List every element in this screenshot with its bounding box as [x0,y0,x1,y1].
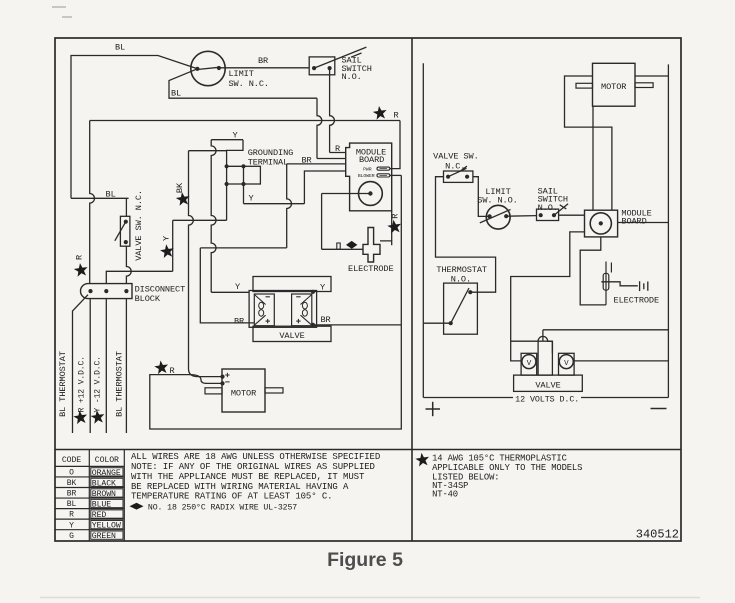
label LIMIT SW. N.O. [477,187,517,205]
svg-text:BL THERMOSTAT: BL THERMOSTAT [58,351,68,417]
label R module wire [335,144,340,154]
code row YELLOW [69,520,123,530]
label CODE header [62,456,81,465]
disconnect terminal 2 [104,289,108,293]
svg-text:ELECTRODE: ELECTRODE [614,295,660,305]
sail switch S2 blade [554,204,568,215]
label SAIL SWITCH N.O. right [538,186,568,212]
wire BR valve to right bus [313,324,401,326]
svg-text:Y: Y [69,521,74,530]
motor M2 tab right [635,83,653,88]
svg-text:R: R [394,111,399,121]
valve switch SW3 box [444,171,473,182]
electrode E2 gap bar [610,263,612,273]
wire electrode right stub [380,211,392,246]
valve switch SW2 box [120,216,129,246]
label R bus [394,111,399,121]
sail switch S1 box [309,57,335,75]
label VALVE SW. N.C. [134,190,144,261]
star BK [176,192,190,206]
wire valve sw to thermostat [436,177,496,293]
svg-text:NT-40: NT-40 [432,490,458,500]
svg-text:TEMPERATURE RATING OF AT LEAST: TEMPERATURE RATING OF AT LEAST 105° C. [131,492,332,502]
notes divider [55,449,681,451]
valve center block [538,341,552,375]
svg-text:BLOWER: BLOWER [358,173,375,179]
motor tab left [205,388,222,394]
label COLOR header [95,456,119,465]
blower motor symbol circle [359,182,383,206]
electrode E2 rod [605,262,607,305]
wire valve jumper with hop [511,336,553,353]
svg-text:R +12 V.D.C.: R +12 V.D.C. [77,356,86,412]
svg-text:CODE: CODE [62,456,81,465]
svg-text:MOTOR: MOTOR [231,389,256,399]
valve switch SW3 blade [448,166,467,177]
svg-text:BL: BL [106,190,116,200]
svg-text:R: R [69,511,74,520]
sail switch contact right [328,66,332,70]
svg-text:Y: Y [232,130,237,140]
svg-text:N.O.: N.O. [451,275,471,285]
valve coil frame [249,291,317,328]
valve Y bus bar [253,277,331,292]
wire valve top feed [543,330,669,341]
wire R sail to module [330,68,346,152]
svg-text:R: R [335,144,340,154]
module board U2 center [599,221,603,225]
label MODULE BOARD left [356,147,386,165]
valve solenoid V2 V mark [564,360,569,368]
motor terminal minus [220,381,224,385]
wire module to valve A [511,232,585,361]
label BL THERMOSTAT 2 [114,351,124,417]
valve frame junction top [311,290,315,294]
electrode E2 lug [603,273,609,290]
thermostat contact bottom [449,321,453,325]
scan streak bottom [40,597,700,599]
lug box junction top [241,164,245,168]
wire R thermostat [89,299,91,433]
label BL valve wire [106,190,116,200]
svg-text:12 VOLTS D.C.: 12 VOLTS D.C. [515,394,579,404]
wire BL thermostat 1 [73,295,89,433]
label PWR [363,166,372,172]
wire BK to motor [189,151,223,377]
limit switch SW4 circle [486,205,510,229]
spark gap bars [640,281,648,291]
wire R bus line [90,120,400,122]
svg-text:N.O.: N.O. [342,72,362,82]
wire Y thermostat [105,299,107,433]
thermostat blade [451,288,469,323]
label BL THERMOSTAT 1 [58,351,68,417]
label R disconnect [75,255,85,260]
blower motor center [368,191,372,195]
label BR module [301,156,311,166]
motor M2 tab left [576,83,593,88]
svg-text:BLACK: BLACK [92,479,116,488]
motor plus mark [225,373,229,377]
grounding lug box [227,166,261,184]
code row BLACK [67,478,123,488]
valve switch blade [115,222,126,241]
svg-text:BR: BR [301,156,311,166]
svg-text:BR: BR [320,315,330,325]
svg-text:BK: BK [175,182,185,193]
label VALVE SW right [433,151,479,171]
label GROUNDING TERMINAL [248,148,294,167]
svg-text:Y: Y [235,282,240,292]
module board U1 outline [346,143,392,211]
svg-text:NOTE: IF ANY OF THE ORIGINAL W: NOTE: IF ANY OF THE ORIGINAL WIRES AS SU… [131,462,375,472]
limit switch SW4 blade [480,210,511,223]
label R electrode [391,214,401,219]
figure caption [327,549,403,571]
label Y lug wire [248,194,253,204]
label VALVE left panel [279,331,304,341]
svg-text:BL THERMOSTAT: BL THERMOSTAT [114,351,124,417]
wire BL top loop [71,56,197,199]
radix wire diamond [346,241,357,249]
svg-text:Figure 5: Figure 5 [327,549,403,571]
label MOTOR right [601,82,626,92]
wire sail to module right [559,214,585,216]
valve solenoid V2 box [559,353,575,375]
terminal lug BLOWER [377,174,390,177]
module board U2 circle [590,213,611,234]
sail switch S2 contact right [552,213,556,217]
electrode lug small [337,243,340,249]
valve coil L2 box [292,294,312,326]
sail switch blade [314,47,366,68]
valve solenoid V1 V mark [527,360,532,368]
svg-text:O: O [69,469,74,478]
motor minus mark [225,381,229,383]
svg-text:NO. 18 250°C RADIX WIRE UL-325: NO. 18 250°C RADIX WIRE UL-3257 [148,503,297,512]
wire Y lug to module [244,171,346,204]
label VALVE right [535,380,560,390]
valve coil L1 symbol [254,295,270,326]
valve solenoid V1 box [521,353,537,375]
label ELECTRODE left [348,264,394,274]
svg-text:BR: BR [67,490,77,499]
valve solenoid V1 circle [522,355,536,369]
svg-text:ALL WIRES ARE 18 AWG UNLESS OT: ALL WIRES ARE 18 AWG UNLESS OTHERWISE SP… [131,452,380,462]
svg-text:YELLOW: YELLOW [92,522,121,531]
svg-text:V: V [564,360,569,368]
valve switch SW3 contact left [446,175,450,179]
svg-text:BLOCK: BLOCK [135,294,161,304]
wire valve sw to limit [473,177,490,217]
valve coil L1 box [254,294,274,326]
svg-text:BL: BL [171,89,181,99]
svg-text:340512: 340512 [636,528,679,542]
wire BR module to valve [200,164,345,323]
disconnect terminal 3 [124,289,128,293]
motor M2 box [593,63,636,106]
wire valve switch to disconnect [126,246,131,283]
border frame [55,38,681,541]
valve body box right [514,375,583,391]
limit switch SW4 contact right [504,214,508,218]
label R +12 VDC [77,356,86,412]
svg-text:N.C.: N.C. [445,161,465,171]
wire module to negative rail [618,222,669,224]
disconnect block body [81,284,133,299]
svg-text:R: R [170,366,175,376]
svg-text:VALVE: VALVE [279,331,304,341]
motor terminal plus [220,375,224,379]
wire blower feed [322,194,371,250]
lug box junction bottom [241,182,245,186]
label BR valve left [234,316,244,326]
note radix wire [148,503,297,512]
code row BROWN [67,489,123,499]
valve frame junction bottom [311,323,315,327]
limit switch SW1 circle [191,51,225,85]
svg-text:BROWN: BROWN [92,490,116,499]
wire 12V bus [423,397,668,399]
label ELECTRODE right [614,295,660,305]
part number 340512 [636,528,679,542]
thermostat contact top [468,290,472,294]
limit switch contact right [217,66,221,70]
label Y valve left [235,282,240,292]
star Y wire [160,244,174,258]
label BL top [115,43,125,53]
svg-text:ELECTRODE: ELECTRODE [348,264,394,274]
label Y valve right [320,283,325,293]
wire valve to negative rail [574,360,668,362]
svg-text:BL: BL [67,500,77,509]
wire R left drop to disconnect [90,121,95,284]
star R bus [373,106,387,120]
note text right [432,454,582,500]
svg-text:BE REPLACED WITH WIRING MATERI: BE REPLACED WITH WIRING MATERIAL HAVING … [131,482,349,492]
label Y wire [161,236,171,241]
wire electrode to gap [601,282,638,286]
electrode E1 cross [363,228,380,263]
svg-text:R: R [75,255,85,260]
valve switch contact top [124,220,128,224]
motor tab right [265,388,283,393]
label DISCONNECT BLOCK [135,285,186,304]
svg-text:ORANGE: ORANGE [92,469,121,478]
valve switch contact bottom [124,240,128,244]
panel divider [411,38,413,541]
disconnect terminal 1 [88,289,92,293]
label LIMIT SW. N.C. [229,69,269,89]
thermostat box [444,283,478,334]
wire R bus to PWR lug [390,121,400,169]
svg-text:Y: Y [161,236,171,241]
wire thermostat to positive rail [423,322,450,324]
wire BL lower from limit [169,69,346,159]
valve switch SW3 contact right [465,175,469,179]
rail junction upper [225,164,229,168]
svg-text:BOARD: BOARD [621,217,646,227]
wire limit to sail right [506,215,536,218]
sail switch S2 box [537,209,559,220]
svg-text:LIMIT: LIMIT [229,69,254,79]
wire Y disconnect to ground rail [106,220,226,283]
label 12 VOLTS D.C. [515,394,579,404]
wire motor left loop [565,76,612,210]
star R thermostat [73,410,87,424]
svg-text:PWR: PWR [363,166,372,172]
terminal lug PWR [377,167,390,170]
star Y thermostat [91,410,105,424]
label Y rail top [232,130,237,140]
wire BL to valve switch [71,198,129,216]
module board U2 box [585,210,618,237]
wire negative rail [667,64,669,397]
wire motor bottom feed [592,106,594,210]
limit switch contact left [195,67,199,71]
svg-text:VALVE SW. N.C.: VALVE SW. N.C. [134,190,144,261]
label Y -12 VDC [93,356,102,412]
limit switch SW4 contact left [488,214,492,218]
wire code table grid [55,450,124,542]
label BR top [258,56,268,66]
svg-text:BL: BL [115,43,125,53]
svg-text:RED: RED [92,511,107,520]
sail switch contact left [312,66,316,70]
label THERMOSTAT N.O. [436,265,487,284]
label SAIL SWITCH N.O. [342,56,372,83]
wire BL thermostat 2 [125,299,127,433]
svg-text:G: G [69,532,74,541]
wire positive rail [422,63,424,397]
valve label box [253,326,331,341]
code row GREEN [69,531,123,541]
valve coil L2 symbol [296,295,312,326]
valve solenoid V2 circle [559,355,573,369]
svg-text:BOARD: BOARD [359,155,384,165]
code row ORANGE [69,468,123,478]
label BR valve right [320,315,330,325]
wire BR limit to sail [219,67,309,69]
code row RED [69,510,123,520]
svg-text:BR: BR [258,56,268,66]
note text left [131,452,380,501]
note star right [415,453,429,467]
svg-text:VALVE: VALVE [535,380,560,390]
svg-text:GREEN: GREEN [92,532,116,541]
wire BK top link [189,150,227,152]
svg-text:SW. N.C.: SW. N.C. [229,79,269,89]
motor M1 box [222,369,265,412]
svg-text:Y: Y [320,283,325,293]
label BL lower [171,89,181,99]
plus symbol [426,402,441,416]
svg-text:MOTOR: MOTOR [601,82,626,92]
svg-text:V: V [527,360,532,368]
note diamond [130,503,144,510]
svg-text:BK: BK [67,479,77,488]
star R disconnect [74,263,88,277]
scan mark top left [52,7,72,17]
star R motor [154,360,168,374]
svg-text:BR: BR [234,316,244,326]
svg-text:Y -12 V.D.C.: Y -12 V.D.C. [93,356,102,412]
svg-text:R: R [391,214,401,219]
wire motor right link [635,75,668,77]
svg-text:BLUE: BLUE [92,500,111,509]
label MOTOR left [231,389,256,399]
svg-text:VALVE SW.: VALVE SW. [433,151,479,161]
label BK [175,182,185,193]
star R electrode [387,220,401,234]
label R motor [170,366,175,376]
wire BLOWER lug loop [150,175,401,429]
grounding terminal rail [211,140,249,293]
svg-text:14 AWG 105°C THERMOPLASTIC: 14 AWG 105°C THERMOPLASTIC [432,454,567,464]
svg-text:COLOR: COLOR [95,456,119,465]
wire module to electrode [580,237,606,305]
label MODULE BOARD right [621,208,651,226]
svg-text:Y: Y [248,194,253,204]
rail junction lower [225,182,229,186]
sail switch S2 contact left [539,213,543,217]
svg-text:SW. N.O.: SW. N.O. [477,195,517,205]
label BLOWER [358,173,375,179]
code row BLUE [67,499,123,509]
minus symbol [651,408,667,410]
svg-text:WITH THE APPLIANCE MUST BE REP: WITH THE APPLIANCE MUST BE REPLACED, IT … [131,472,365,482]
svg-text:N.O.: N.O. [538,203,558,213]
limit switch blade [197,67,219,69]
